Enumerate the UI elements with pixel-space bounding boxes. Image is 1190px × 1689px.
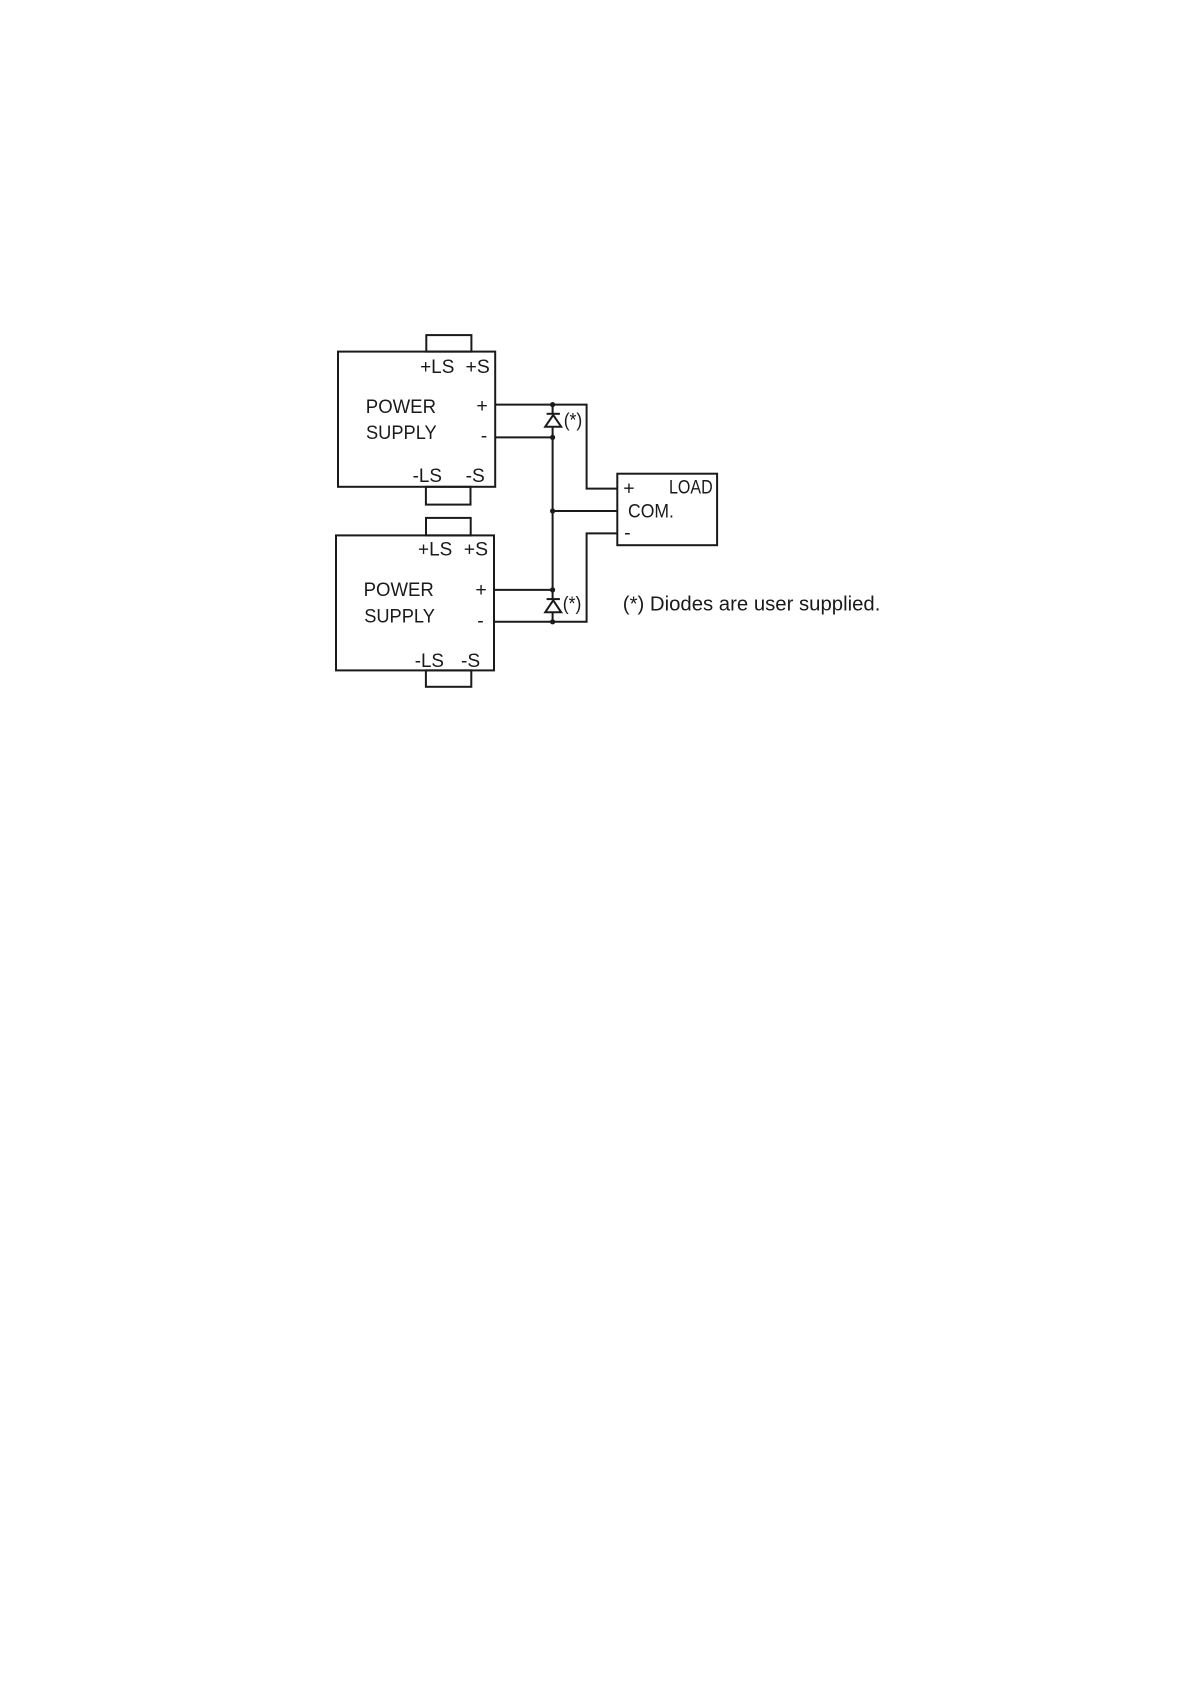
svg-text:+: +	[476, 395, 487, 417]
power supply PS2 top tab	[426, 518, 471, 536]
svg-text:SUPPLY: SUPPLY	[366, 422, 437, 444]
svg-text:COM.: COM.	[628, 501, 674, 523]
svg-text:(*): (*)	[563, 593, 582, 615]
diode D2 triangle	[545, 600, 561, 612]
svg-text:-LS: -LS	[415, 650, 444, 672]
svg-text:-LS: -LS	[413, 465, 442, 487]
svg-text:+LS: +LS	[418, 539, 452, 561]
junction dot PS1 +	[550, 402, 555, 407]
diode D1 cathode bar	[547, 413, 560, 415]
svg-text:-: -	[624, 522, 631, 544]
svg-text:(*): (*)	[564, 410, 583, 432]
svg-text:+: +	[475, 579, 486, 601]
wire node A bus lower segment (D2 anode to PS2 -)	[552, 612, 554, 622]
svg-text:+S: +S	[464, 539, 488, 561]
wire PS2 - output to LOAD -	[494, 533, 617, 621]
diode D1 triangle	[545, 415, 561, 427]
power supply PS1 bottom tab	[426, 487, 471, 505]
svg-text:-S: -S	[466, 465, 485, 487]
svg-text:POWER: POWER	[364, 579, 434, 601]
wire node A to LOAD COM.	[553, 510, 618, 512]
svg-text:(*) Diodes are user supplied.: (*) Diodes are user supplied.	[623, 594, 881, 616]
svg-text:LOAD: LOAD	[669, 477, 713, 499]
svg-text:POWER: POWER	[366, 396, 436, 418]
power supply PS1 top tab	[426, 335, 471, 352]
wire PS2 + output to node A	[494, 589, 553, 591]
load box	[617, 474, 717, 546]
diode D2 cathode bar	[547, 598, 560, 600]
svg-text:+S: +S	[466, 356, 490, 378]
svg-text:-S: -S	[461, 650, 480, 672]
svg-text:+LS: +LS	[420, 356, 454, 378]
wire node A bus middle segment (D1 anode to D2 cathode)	[552, 427, 554, 599]
power supply PS1 box	[338, 352, 495, 487]
wire PS1 - output to node A	[495, 436, 553, 438]
junction dot COM	[550, 508, 555, 513]
power supply PS2 bottom tab	[426, 670, 471, 686]
junction dot PS2 +	[550, 587, 555, 592]
junction dot PS2 -	[550, 619, 555, 624]
wire node A bus upper segment (to D1 cathode)	[552, 405, 554, 414]
svg-text:SUPPLY: SUPPLY	[364, 605, 435, 627]
svg-text:-: -	[481, 425, 488, 447]
wire PS1 + output to LOAD +	[495, 405, 617, 489]
junction dot PS1 -	[550, 435, 555, 440]
svg-text:-: -	[477, 610, 484, 632]
power supply PS2 box	[336, 535, 494, 670]
svg-text:+: +	[623, 478, 634, 500]
